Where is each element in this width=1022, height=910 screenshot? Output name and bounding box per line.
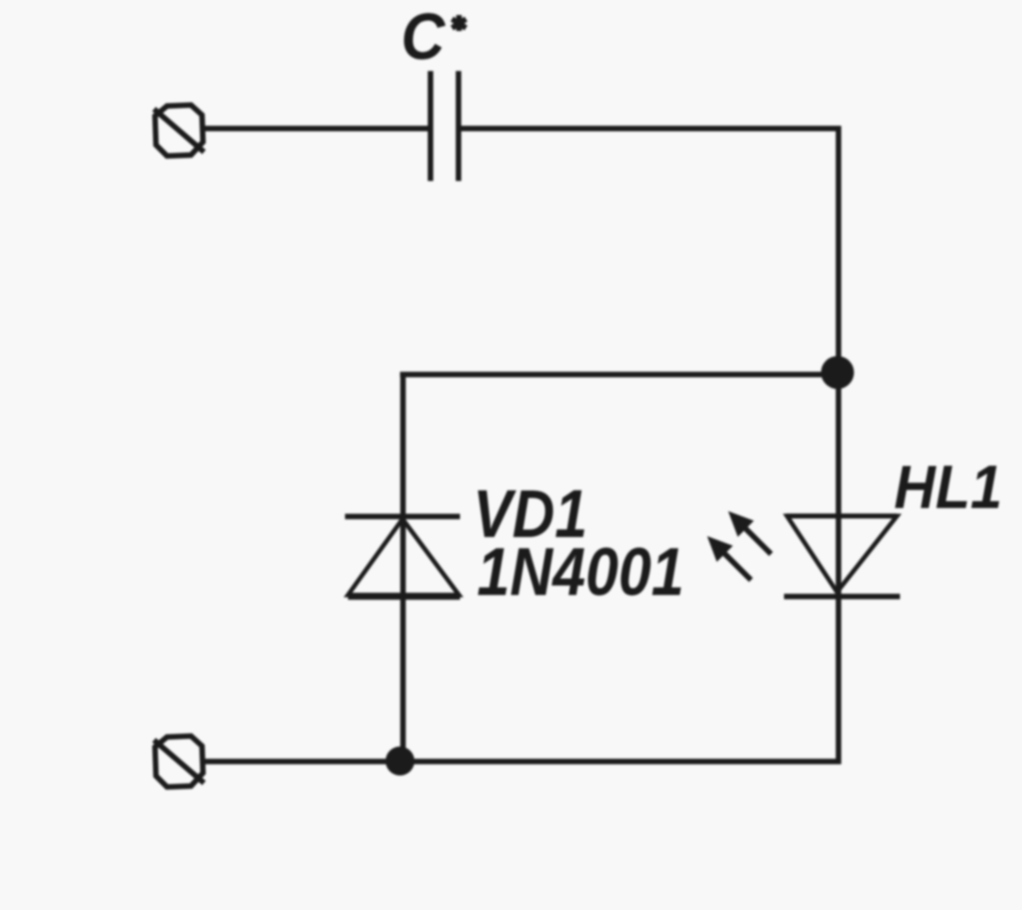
label C* [401, 1, 466, 74]
terminal X2 (bottom-left output pin) [154, 736, 204, 787]
capacitor C* plates [431, 71, 459, 181]
wire bottom horizontal [204, 759, 841, 765]
wire top-right horizontal [459, 126, 841, 132]
node junction B [386, 747, 415, 776]
wire left vertical [400, 372, 406, 764]
diode VD1 [345, 517, 460, 598]
svg-text:HL1: HL1 [894, 452, 1002, 521]
wire middle horizontal [400, 372, 838, 378]
LED HL1 [784, 516, 900, 597]
node junction A [821, 356, 854, 389]
wire top-left horizontal [204, 126, 430, 132]
wire right vertical [836, 126, 842, 764]
svg-text:C: C [401, 1, 446, 74]
svg-text:1N4001: 1N4001 [477, 533, 684, 610]
LED HL1 emission arrows [708, 512, 771, 580]
terminal X1 (top-left input pin) [154, 105, 204, 156]
